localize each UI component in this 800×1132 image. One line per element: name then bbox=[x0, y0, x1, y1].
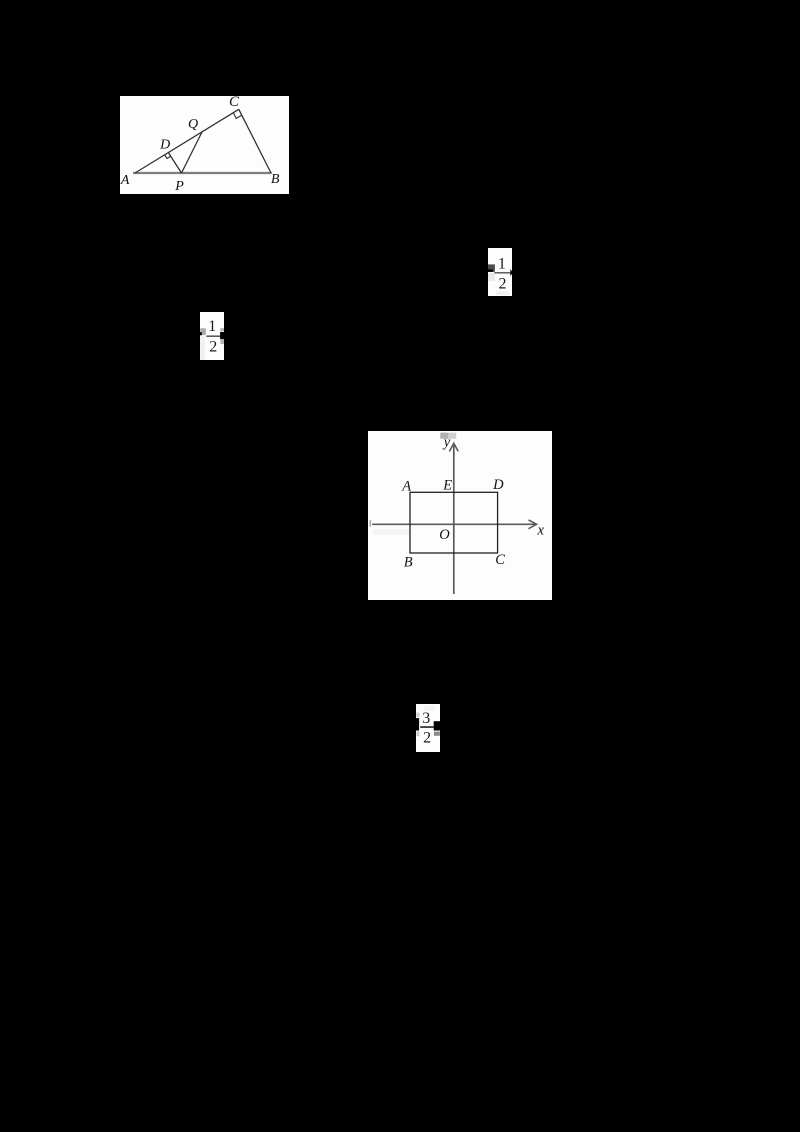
svg-text:B: B bbox=[271, 171, 280, 186]
artifact gray square dark (top) bbox=[440, 432, 448, 438]
artifact light column left bbox=[200, 336, 205, 360]
fraction one-half (second) box bbox=[200, 312, 224, 360]
svg-text:O: O bbox=[439, 527, 450, 543]
svg-text:1: 1 bbox=[208, 318, 216, 335]
svg-text:2: 2 bbox=[499, 275, 507, 292]
svg-text:C: C bbox=[495, 552, 505, 568]
artifact light square below bar left bbox=[488, 273, 495, 281]
segment CB bbox=[239, 109, 271, 173]
artifact tick left of x axis bbox=[369, 520, 370, 526]
svg-text:3: 3 bbox=[422, 710, 430, 727]
rectangle ABCD bbox=[410, 492, 498, 553]
artifact light band top bbox=[424, 705, 435, 710]
segment AC bbox=[135, 109, 239, 173]
artifact black arrow right bbox=[510, 268, 512, 275]
x axis bbox=[372, 523, 536, 525]
svg-text:2: 2 bbox=[209, 338, 217, 355]
artifact gray square light (top) bbox=[448, 432, 456, 438]
svg-text:D: D bbox=[492, 477, 504, 493]
artifact black notch left bbox=[488, 269, 493, 271]
svg-text:x: x bbox=[536, 523, 544, 539]
artifact light band bottom bbox=[496, 291, 509, 295]
segment PD bbox=[168, 152, 181, 172]
svg-text:1: 1 bbox=[498, 255, 506, 272]
artifact dark gray square bbox=[488, 264, 495, 271]
svg-text:B: B bbox=[403, 554, 412, 570]
artifact black mark left bbox=[200, 332, 202, 335]
fraction bar bbox=[494, 272, 510, 273]
wire segment AB (gray base line) bbox=[133, 171, 272, 173]
fraction one-half (first) box bbox=[488, 248, 512, 296]
svg-text:Q: Q bbox=[188, 117, 198, 132]
svg-text:C: C bbox=[229, 96, 240, 110]
artifact gray square right bbox=[434, 731, 440, 735]
fraction bar bbox=[206, 335, 220, 336]
coordinate plane figure box bbox=[368, 431, 552, 600]
artifact gray square left bbox=[200, 328, 206, 335]
svg-text:A: A bbox=[120, 172, 130, 187]
svg-text:2: 2 bbox=[423, 729, 431, 746]
artifact faint band below x axis bbox=[372, 529, 410, 534]
segment PQ bbox=[182, 132, 203, 173]
svg-text:E: E bbox=[442, 478, 452, 494]
fraction three-halves box bbox=[416, 704, 440, 752]
right angle at C bbox=[233, 112, 241, 118]
svg-text:D: D bbox=[159, 137, 170, 152]
y axis bbox=[452, 444, 454, 593]
artifact gray strip left lower bbox=[416, 731, 419, 736]
artifact gray square right top bbox=[220, 328, 224, 331]
artifact gray strip left upper bbox=[416, 712, 419, 716]
x axis arrowhead bbox=[528, 520, 536, 529]
artifact black block right bbox=[220, 332, 224, 339]
svg-text:A: A bbox=[401, 478, 411, 494]
svg-text:P: P bbox=[174, 179, 184, 194]
y axis arrowhead bbox=[449, 443, 458, 451]
triangle figure box bbox=[120, 96, 289, 194]
artifact black block right bbox=[434, 721, 440, 730]
artifact black block left bbox=[416, 718, 419, 730]
artifact gray square right below bbox=[220, 339, 224, 344]
right angle at D bbox=[165, 154, 171, 158]
fraction bar bbox=[420, 726, 434, 727]
